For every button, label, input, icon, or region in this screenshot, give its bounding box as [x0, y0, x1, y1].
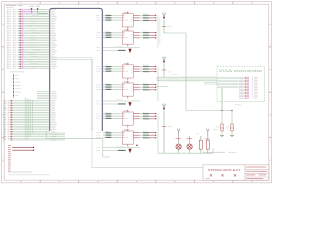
extra wires into VGA left: [204, 82, 217, 84]
buffer block Q3 with input resistors: [96, 63, 133, 81]
VGA connector dashed group box: [217, 66, 265, 101]
output resistors of Q5: [133, 112, 156, 120]
bottom-left notes text: [8, 172, 50, 176]
supply fork above C1: [177, 129, 180, 142]
junction dot: [136, 144, 138, 146]
output resistors of Q3: [133, 65, 156, 73]
text below VGA box: [235, 104, 241, 107]
RGB video nets to VGA: [157, 75, 218, 87]
IC U1 left pin names (lower bank): [51, 91, 57, 140]
wire into VGA bottom: [221, 88, 223, 111]
ESD diode D1 below VGA: [216, 110, 225, 137]
ground rail wire bottom: [158, 148, 213, 153]
frame section labels: [2, 2, 270, 182]
text above title block: [203, 151, 236, 154]
supply arrow VCC2: [162, 57, 172, 77]
frame tick marks: [2, 2, 272, 183]
frame inner border: [4, 4, 269, 180]
resistor R7: [199, 137, 202, 154]
output resistors of Q4: [133, 83, 156, 91]
VGA connector CON1 rows: [217, 76, 258, 98]
title block fields: [206, 167, 268, 179]
buffer block Q6 with input resistors: [96, 129, 133, 147]
sync net route: [164, 33, 232, 111]
supply arrow VCC1: [162, 13, 172, 33]
output resistors of Q6: [133, 131, 156, 139]
capacitor C2: [187, 138, 193, 153]
IC U1 left pin names (upper bank): [51, 9, 57, 68]
connector P1 body line: [22, 9, 24, 69]
wire from U1 bottom to RC: [103, 138, 110, 157]
connector P2 rows: labels, pins, wires to U1: [3, 92, 65, 141]
resistor R8: [206, 137, 209, 154]
output resistors of Q2: [133, 31, 156, 39]
buffer block Q2 with input resistors: [96, 29, 133, 47]
RC to ground after pair 2: [96, 100, 140, 107]
supply arrow VCC3: [162, 104, 172, 154]
buffer block Q1 with input resistors: [96, 12, 133, 30]
header P3 red pin labels: [8, 145, 11, 171]
supply symbol +3V3: [30, 6, 35, 13]
frame outer border: [2, 2, 272, 183]
output merge vertical pair 2: [157, 66, 159, 101]
sheet header text: [6, 5, 23, 8]
svg-text:VGA connector: VGA connector: [219, 69, 265, 73]
capacitor C1: [176, 138, 182, 153]
svg-text:STM32F4DIS-EXT: STM32F4DIS-EXT: [208, 168, 241, 172]
junction cross below U1: [106, 131, 109, 134]
light outline lines: [46, 58, 203, 168]
P3 wires: [12, 147, 34, 151]
RC to ground after pair 1: [96, 46, 140, 53]
IC U1 body: [50, 8, 103, 131]
RC to ground after pair 3: [96, 146, 140, 153]
output merge vertical pair 1: [158, 16, 160, 48]
net labels column between banks: [10, 71, 24, 98]
buffer block Q5 with input resistors: [96, 110, 133, 128]
output resistors of Q1: [133, 14, 156, 22]
stub above C2 and R7: [190, 133, 201, 141]
title block box: [203, 165, 269, 181]
supply fork above R8: [206, 129, 209, 141]
connector P1 rows: labels, pins, wires to U1: [7, 8, 50, 68]
label near R8: [205, 129, 219, 139]
ESD diode D2 below VGA: [226, 110, 235, 137]
vertical bus band crossing P2 wires: [25, 98, 34, 140]
buffer block Q4 with input resistors: [96, 81, 133, 99]
output merge vertical pair 3: [157, 114, 159, 154]
supply symbol +5V: [36, 6, 48, 14]
